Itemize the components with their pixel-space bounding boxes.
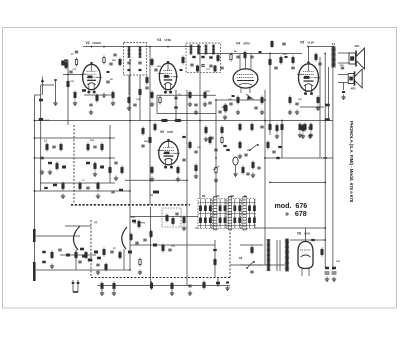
component: [128, 251, 132, 254]
wire: [324, 54, 326, 269]
capacitor: [109, 63, 112, 65]
speaker AP1: [349, 48, 365, 69]
terminal T: [53, 79, 57, 105]
res: [224, 104, 226, 113]
cap: [194, 104, 197, 106]
wire: [97, 285, 230, 287]
gnd: [188, 291, 192, 296]
res: [289, 96, 291, 105]
res: [109, 166, 111, 175]
wire: [186, 90, 188, 286]
cap: [86, 187, 89, 189]
wire: [149, 47, 151, 205]
wire: [150, 207, 152, 286]
wire: [35, 137, 116, 139]
wire: [63, 74, 83, 76]
res: [74, 91, 76, 100]
cap: [96, 264, 99, 266]
wire: [290, 239, 325, 241]
blob: [259, 51, 262, 53]
wire: [109, 125, 111, 183]
cap: [208, 102, 211, 104]
wire: [36, 269, 130, 271]
switch mains: [246, 261, 255, 269]
electrolytic C1: [325, 267, 330, 282]
variable cap arc 2: [122, 227, 127, 249]
wire: [67, 60, 69, 125]
cap on rail: [260, 126, 263, 128]
res hang: [310, 123, 312, 132]
gnd: [214, 178, 218, 183]
svg-text:6TE8: 6TE8: [244, 42, 251, 46]
blob: [223, 145, 226, 147]
cap: [257, 167, 260, 169]
cap: [58, 249, 61, 251]
svg-text:V4: V4: [236, 42, 240, 46]
res on rail: [154, 123, 156, 132]
cap: [40, 157, 43, 159]
wire: [214, 240, 216, 278]
cap: [291, 67, 294, 69]
res: [75, 251, 77, 260]
wire: [35, 94, 42, 96]
res: [142, 127, 144, 136]
gnd: [194, 174, 198, 179]
wire: [281, 121, 283, 159]
res: [269, 58, 271, 67]
cap: [282, 43, 285, 45]
cap: [250, 271, 253, 273]
svg-text:FM: FM: [202, 196, 205, 198]
IF transformer can T1: [124, 43, 147, 76]
res on rail: [269, 123, 271, 132]
wire: [129, 230, 131, 270]
cap: [274, 67, 277, 69]
cap: [246, 173, 249, 175]
res: [189, 91, 191, 100]
gnd: [260, 110, 264, 115]
wire: [175, 90, 177, 120]
svg-text:UF89: UF89: [165, 38, 172, 42]
cap: [188, 285, 191, 287]
component switch: [249, 144, 259, 151]
blob: [311, 239, 315, 241]
svg-text:mod. 676: mod. 676: [275, 202, 308, 210]
cap: [175, 213, 178, 215]
tube V3: [233, 54, 258, 93]
switch bank: [198, 196, 256, 230]
gnd: [89, 110, 93, 115]
blob: [66, 254, 70, 257]
gnd: [295, 110, 299, 115]
gnd: [308, 134, 312, 139]
IF cap: [127, 62, 130, 64]
gnd: [316, 106, 320, 111]
gnd: [138, 270, 142, 275]
cap: [254, 107, 257, 109]
blob: [128, 69, 131, 71]
cap: [229, 103, 232, 105]
gnd: [203, 102, 207, 107]
wire: [40, 85, 42, 191]
svg-text:V5: V5: [300, 41, 304, 45]
res: [183, 216, 185, 225]
gnd: [236, 110, 240, 115]
antenna A1: [41, 77, 44, 96]
component L4: [153, 244, 157, 247]
res: [113, 282, 115, 291]
component: [53, 184, 57, 187]
svg-text:OC: OC: [216, 196, 220, 198]
IF cap: [190, 64, 193, 66]
blob: [119, 189, 123, 192]
wire dashed: [90, 220, 92, 278]
res: [195, 164, 197, 173]
gnd: [251, 173, 255, 178]
cap: [141, 145, 144, 147]
res hang: [304, 123, 306, 132]
res: [230, 53, 232, 62]
res: [146, 76, 148, 85]
res on rail: [251, 123, 253, 132]
component: [94, 251, 98, 254]
tube V2: [158, 61, 178, 93]
IF cap: [209, 65, 212, 67]
component: [44, 187, 48, 189]
res: [315, 53, 317, 62]
wire: [300, 106, 324, 108]
wire: [264, 90, 266, 265]
gnd: [150, 102, 154, 107]
res: [251, 246, 253, 255]
gnd: [301, 134, 305, 139]
wire: [215, 100, 217, 196]
res: [96, 94, 98, 103]
gnd: [309, 133, 313, 138]
blob: [192, 56, 195, 58]
wire dashed: [91, 277, 230, 279]
wire: [129, 60, 131, 230]
wire: [83, 46, 200, 48]
component: [61, 61, 65, 66]
wire: [319, 57, 321, 158]
res: [252, 161, 254, 170]
trimmer cluster: [48, 162, 66, 175]
tube V5: [157, 139, 180, 168]
res: [150, 230, 152, 239]
ground: [102, 93, 106, 98]
cap: [89, 104, 92, 106]
cap: [194, 151, 197, 153]
blob: [80, 248, 84, 251]
component: [174, 106, 178, 108]
res: [205, 126, 207, 135]
res on rail: [239, 123, 241, 132]
blob: [97, 257, 101, 260]
res: [209, 136, 211, 145]
cap: [174, 97, 177, 99]
res: [85, 251, 87, 259]
res: [171, 282, 173, 291]
blob: [64, 59, 67, 61]
wire: [240, 244, 263, 246]
res: [112, 91, 114, 100]
res pair on bus: [325, 104, 330, 107]
gnd: [111, 101, 115, 106]
cap: [114, 162, 117, 164]
res: [160, 119, 169, 121]
svg-text:UL84: UL84: [308, 41, 315, 45]
gnd: [50, 264, 54, 269]
gnd: [114, 176, 118, 181]
resistor: [65, 61, 67, 70]
cap: [78, 261, 81, 263]
blob: [226, 149, 230, 151]
wire: [230, 264, 285, 266]
rectifier tube V6: [298, 228, 313, 276]
junction: [91, 46, 93, 48]
cap: [308, 127, 311, 129]
cap: [220, 67, 223, 69]
wire: [157, 94, 216, 96]
svg-text:S2: S2: [239, 256, 243, 260]
res: [151, 58, 153, 67]
IF coil: [139, 47, 142, 58]
gnd: [170, 291, 174, 296]
wire: [125, 179, 187, 181]
cap: [244, 154, 247, 156]
gnd: [96, 194, 100, 199]
cap: [182, 159, 185, 161]
res: [182, 56, 184, 65]
wire: [157, 113, 216, 115]
wire: [332, 54, 334, 271]
electrolytic C2: [332, 267, 337, 282]
wire: [35, 157, 116, 159]
res: [214, 65, 216, 72]
IF cap: [138, 62, 141, 64]
junction: [149, 120, 151, 122]
wire top right: [308, 46, 334, 48]
wire: [130, 244, 215, 246]
wire: [338, 74, 348, 76]
gnd: [288, 110, 292, 115]
gnd: [275, 134, 279, 139]
blob: [209, 56, 212, 58]
res: [150, 281, 152, 290]
svg-text:AP2: AP2: [351, 87, 357, 91]
res: [103, 248, 105, 257]
IF coil: [190, 45, 193, 54]
svg-text:UCH81: UCH81: [93, 41, 102, 45]
res: [271, 40, 273, 47]
gnd: [127, 106, 131, 111]
gnd: [73, 101, 77, 106]
wire: [264, 157, 333, 159]
res: [242, 166, 244, 175]
res on rail: [281, 123, 283, 132]
wire: [328, 67, 330, 121]
blob: [213, 249, 217, 251]
gnd: [176, 177, 180, 182]
cap: [135, 242, 138, 244]
cap: [154, 69, 157, 71]
res: [292, 56, 294, 65]
wire: [240, 264, 263, 266]
res: [221, 126, 223, 135]
wire: [195, 227, 325, 229]
res: [138, 220, 140, 229]
wire dashed: [73, 125, 75, 204]
svg-text:V8: V8: [297, 232, 301, 236]
res: [79, 182, 81, 191]
res: [97, 182, 99, 191]
res: [174, 119, 183, 121]
grid cap components: [71, 51, 78, 66]
component: [342, 91, 345, 93]
res hang: [276, 124, 278, 133]
gnd: [182, 226, 186, 231]
tube V1: [81, 62, 102, 93]
gnd: [204, 137, 208, 142]
wire: [60, 254, 96, 256]
res: [128, 96, 130, 105]
transformer core: [276, 240, 278, 271]
wire: [199, 47, 201, 216]
cap: [272, 151, 275, 153]
svg-text:AP1: AP1: [355, 44, 361, 48]
gnd: [223, 115, 227, 120]
component: [119, 58, 121, 67]
wire: [217, 278, 219, 286]
component pot: [213, 166, 219, 175]
res: [151, 166, 153, 175]
cap: [110, 251, 113, 253]
blob: [201, 56, 204, 58]
mains transformer secondary: [285, 239, 289, 271]
output transformer T3: [331, 42, 336, 67]
svg-text:V3: V3: [157, 38, 161, 42]
cap: [168, 249, 171, 251]
blob: [278, 146, 282, 148]
svg-text:UY41: UY41: [304, 233, 311, 236]
gnd: [96, 270, 100, 275]
res: [130, 233, 132, 241]
res: [162, 244, 164, 253]
res: [203, 281, 205, 290]
res: [217, 54, 219, 63]
svg-text:UY85: UY85: [167, 131, 174, 134]
cap: [143, 239, 146, 241]
res: [101, 282, 103, 291]
res: [62, 182, 64, 191]
coil L1: [39, 99, 49, 122]
res: [196, 65, 198, 72]
speaker AP2: [348, 69, 362, 88]
res: [159, 96, 161, 105]
component: [132, 220, 136, 223]
tube V4: [297, 62, 320, 95]
IF coil: [197, 45, 200, 54]
blob: [180, 69, 183, 71]
wire dashed: [229, 218, 231, 278]
res: [244, 51, 246, 60]
coil L3 cluster: [44, 140, 62, 152]
res: [204, 91, 206, 100]
res hang: [299, 123, 301, 132]
blob: [216, 282, 220, 285]
res: [225, 104, 227, 113]
mains transformer primary: [267, 240, 271, 271]
wire: [35, 120, 334, 122]
svg-text:PHONOLA (S.A. FIMI) - Modd. 67: PHONOLA (S.A. FIMI) - Modd. 676 e 678: [349, 121, 354, 203]
IF cap: [201, 65, 204, 67]
cap C50: [341, 67, 344, 69]
IF coil: [128, 47, 131, 58]
res: [51, 251, 53, 260]
blob: [232, 95, 235, 97]
ferrite bar 2: [33, 262, 36, 281]
svg-text:OM: OM: [230, 196, 234, 198]
gnd: [40, 170, 44, 175]
res: [121, 166, 123, 175]
cap: [210, 137, 213, 139]
res: [214, 258, 216, 267]
wire: [128, 75, 130, 95]
wire dashed band: [71, 204, 190, 206]
arc leads: [75, 250, 77, 270]
gnd: [150, 177, 154, 182]
gnd: [61, 194, 65, 199]
res: [237, 96, 239, 105]
res: [139, 88, 141, 97]
junction: [167, 46, 169, 48]
res: [302, 124, 304, 133]
wire: [35, 190, 131, 192]
svg-text:V2: V2: [86, 41, 90, 45]
blob on rail: [276, 157, 280, 159]
IF transformer can T2: [186, 43, 221, 73]
cap: [133, 104, 136, 106]
cap: [295, 103, 298, 105]
junction: [269, 53, 271, 55]
blob: [82, 89, 86, 92]
blob: [88, 259, 93, 262]
end terminal: [226, 282, 229, 284]
res: [177, 166, 179, 175]
IF coil: [212, 45, 215, 54]
wire: [84, 94, 113, 96]
wire: [130, 215, 215, 217]
wire: [34, 95, 36, 281]
gnd: [194, 110, 198, 115]
component diode: [246, 94, 254, 100]
component: [153, 191, 159, 194]
blob: [82, 255, 86, 258]
svg-text:» 678: » 678: [285, 210, 307, 218]
res: [239, 141, 241, 150]
cap: [113, 54, 116, 56]
cap: [145, 87, 148, 89]
tuning coil: [42, 251, 46, 264]
res: [166, 214, 168, 223]
cap: [69, 71, 72, 73]
component: [67, 80, 69, 89]
resistor: [103, 56, 105, 65]
svg-text:L1: L1: [46, 118, 50, 122]
wire rail 182: [270, 181, 325, 183]
cap: [236, 56, 239, 58]
